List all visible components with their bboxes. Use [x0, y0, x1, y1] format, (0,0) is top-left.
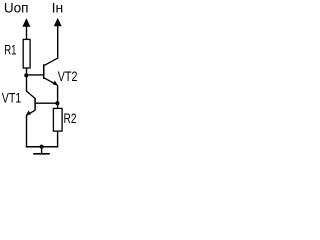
svg-text:Iн: Iн: [52, 0, 64, 16]
svg-text:R2: R2: [64, 111, 77, 127]
svg-text:VT1: VT1: [2, 91, 22, 107]
svg-text:VT2: VT2: [58, 69, 78, 85]
svg-text:R1: R1: [4, 42, 16, 58]
svg-text:Uоп: Uоп: [4, 0, 29, 16]
